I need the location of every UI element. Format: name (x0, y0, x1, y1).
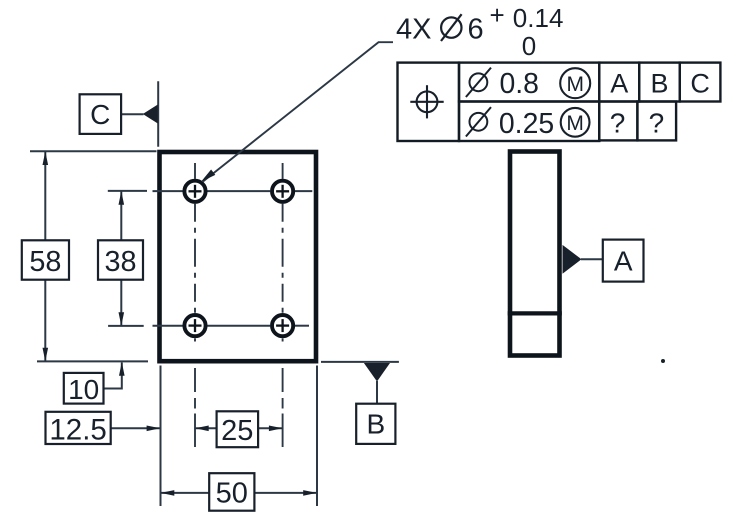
datum A frame (603, 240, 644, 282)
hole callout leader (203, 42, 393, 181)
FCF row2 M modifier (561, 108, 590, 137)
hole axis line top (153, 190, 313, 192)
FCF row1 tolerance cell (459, 63, 599, 102)
datum C leader (121, 113, 144, 115)
dimension 50 (161, 473, 318, 511)
svg-text:58: 58 (29, 246, 61, 278)
svg-text:4X: 4X (396, 14, 431, 46)
dimension 58 (22, 151, 69, 361)
side view step line (508, 311, 562, 315)
svg-text:25: 25 (221, 415, 253, 447)
svg-text:50: 50 (216, 478, 248, 510)
FCF datum cell B (639, 63, 680, 102)
FCF datum cell A (599, 63, 639, 102)
svg-text:A: A (610, 69, 628, 99)
datum B extension line (321, 361, 399, 363)
FCF position cell (398, 63, 460, 141)
extension line bottom-right vertical (316, 366, 318, 507)
FCF position symbol (410, 85, 443, 118)
FCF row2 cell q1 (599, 102, 637, 141)
svg-text:0.25: 0.25 (499, 108, 554, 140)
hole top-right (272, 181, 293, 202)
dimension 10 leader (64, 362, 125, 405)
centerline left (194, 163, 196, 447)
hole callout diameter symbol (441, 14, 462, 41)
extension line 38 top (108, 190, 147, 192)
stray dot (661, 359, 665, 363)
FCF row2 cell q2 (637, 102, 676, 141)
svg-text:6: 6 (468, 14, 484, 46)
svg-text:38: 38 (104, 246, 136, 278)
hole bottom-left (184, 315, 205, 336)
extension line bottom-left vertical (160, 366, 162, 507)
FCF row1 diameter symbol (466, 68, 491, 97)
dimension 12.5 (46, 412, 161, 447)
svg-text:+: + (490, 0, 505, 30)
dimension 38 (98, 191, 143, 326)
datum B leader (376, 381, 378, 404)
svg-text:10: 10 (68, 374, 99, 405)
hole top-left (184, 181, 205, 202)
svg-text:0: 0 (522, 31, 536, 61)
svg-text:0.8: 0.8 (500, 68, 539, 100)
extension line top (58) (30, 150, 157, 152)
datum C frame (80, 94, 122, 134)
svg-text:B: B (366, 408, 385, 439)
extension line bottom left (58) (37, 360, 148, 362)
FCF row2 diameter symbol (466, 107, 491, 136)
svg-text:?: ? (610, 108, 626, 139)
svg-text:C: C (90, 99, 110, 130)
svg-text:0.14: 0.14 (513, 3, 564, 33)
datum C triangle (143, 105, 158, 124)
svg-text:12.5: 12.5 (49, 414, 106, 447)
front view plate outline (160, 152, 317, 361)
centerline right (282, 163, 284, 447)
datum B triangle (364, 363, 390, 382)
svg-text:B: B (650, 69, 668, 99)
extension line 38 bottom (108, 325, 144, 327)
svg-text:C: C (690, 69, 710, 99)
svg-text:M: M (566, 112, 584, 135)
datum C extension line (157, 81, 159, 147)
FCF row2 tolerance cell (459, 102, 599, 142)
FCF datum cell C (680, 63, 721, 102)
dimension 25 (195, 411, 283, 447)
svg-text:A: A (614, 245, 633, 276)
datum A triangle (563, 245, 582, 274)
svg-text:M: M (566, 73, 584, 96)
hole callout leader arrowhead (201, 170, 215, 182)
datum A leader (581, 258, 603, 260)
svg-text:?: ? (649, 108, 665, 139)
datum B frame (356, 404, 395, 444)
side view outline (510, 152, 560, 356)
hole bottom-right (272, 315, 293, 336)
FCF row1 M modifier (560, 68, 590, 98)
hole axis line bottom (153, 325, 310, 327)
